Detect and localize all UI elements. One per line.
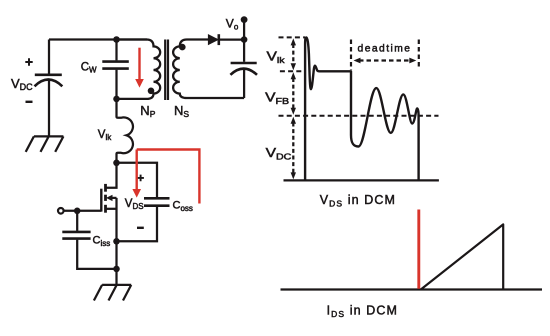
transistor Q1 mosfet — [101, 163, 116, 242]
svg-text:VDS: VDS — [125, 198, 144, 211]
wire top rail — [49, 38, 147, 40]
svg-text:CW: CW — [81, 61, 97, 74]
inductor Vlk — [117, 99, 133, 163]
diode D1 — [208, 34, 244, 45]
red wire bracket — [137, 150, 200, 204]
waveform VDS trace — [305, 37, 419, 180]
drain lead — [106, 163, 117, 188]
level line VFB top (dashed) — [280, 70, 303, 72]
terminal gate input — [58, 208, 64, 214]
svg-text:IDS in DCM: IDS in DCM — [327, 304, 398, 320]
transformer core — [165, 40, 168, 101]
plus sign VDS — [137, 175, 144, 182]
capacitor VDC — [35, 40, 63, 137]
capacitor Coss — [117, 198, 170, 241]
minus sign VDC — [26, 101, 33, 103]
node A (top rail / CW) — [113, 36, 120, 43]
svg-text:VDC: VDC — [11, 76, 33, 92]
polarity dot primary — [148, 88, 155, 95]
capacitor CW — [102, 40, 129, 99]
level line peak (dashed) — [279, 36, 306, 38]
arrow VFB span — [291, 72, 296, 114]
node Coss return — [113, 238, 120, 245]
arrow VDC span — [291, 117, 296, 180]
node Vo junction — [241, 36, 248, 43]
minus sign VDS — [137, 227, 144, 229]
wire drain junction to Coss — [117, 163, 158, 198]
svg-text:VFB: VFB — [265, 90, 289, 107]
capacitor Ciss — [62, 211, 116, 269]
node Ciss return — [113, 266, 120, 273]
transformer primary winding NP — [117, 40, 161, 99]
axis VDS baseline — [284, 179, 439, 181]
svg-text:Coss: Coss — [173, 200, 193, 214]
arrow Vlk span — [291, 38, 296, 70]
plus sign VDC — [25, 58, 32, 65]
channel segments — [104, 184, 107, 192]
terminal Vo — [241, 16, 248, 23]
red current arrow primary — [136, 48, 143, 87]
svg-text:deadtime: deadtime — [358, 43, 412, 54]
node drain junction — [113, 160, 120, 167]
ground G1 — [26, 136, 64, 152]
node B (bottom of CW / primary) — [113, 96, 120, 103]
svg-text:Vo: Vo — [226, 17, 239, 32]
svg-text:VDC: VDC — [266, 146, 292, 163]
svg-text:Vlk: Vlk — [98, 129, 112, 142]
source lead — [106, 208, 117, 210]
red turn-off line — [417, 210, 420, 289]
axis IDS baseline — [281, 288, 543, 290]
ground G2 — [94, 285, 131, 301]
gate bar — [100, 189, 102, 212]
svg-text:NP: NP — [140, 103, 155, 119]
level line VDC (dashed) — [279, 115, 439, 117]
gate wire — [63, 210, 101, 212]
red arrow VDS — [133, 150, 140, 197]
wire source to ground — [115, 241, 117, 285]
svg-text:Ciss: Ciss — [93, 235, 111, 249]
svg-text:Vlk: Vlk — [267, 49, 285, 66]
capacitor Cout — [230, 40, 257, 98]
deadtime marker right (dashed) — [418, 40, 420, 67]
polarity dot secondary — [179, 44, 186, 51]
svg-text:NS: NS — [174, 103, 189, 119]
wire to Vo terminal — [243, 20, 245, 40]
node gate / Ciss — [74, 208, 81, 215]
deadtime marker left (dashed) — [350, 40, 352, 71]
ramp IDS — [421, 224, 503, 289]
deadtime arrow — [354, 58, 417, 64]
transformer secondary winding NS — [173, 40, 244, 99]
body arrow — [106, 195, 113, 201]
svg-text:VDS in DCM: VDS in DCM — [320, 193, 396, 209]
